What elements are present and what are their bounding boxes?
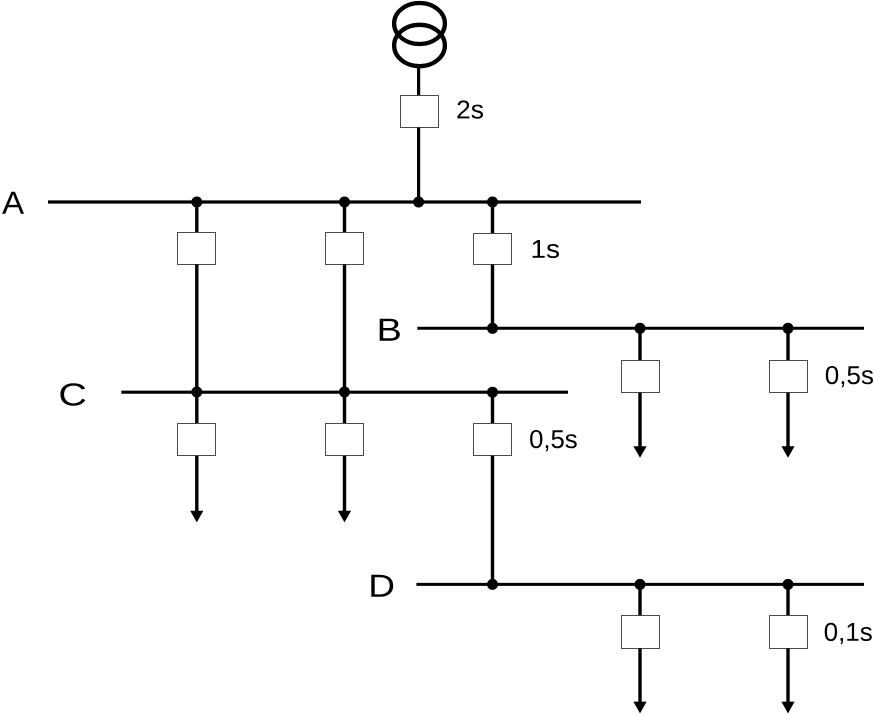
relay A2 box xyxy=(326,233,364,265)
bus B xyxy=(417,327,864,330)
wire relay C3 to bus D xyxy=(491,456,494,585)
relay C1 box xyxy=(178,424,216,456)
load arrow D1 xyxy=(633,648,646,713)
wire bus D to relay D1 xyxy=(638,584,641,616)
load arrow C1 xyxy=(190,456,203,523)
label 1s xyxy=(533,240,559,258)
label 0,5s bus C xyxy=(530,430,577,451)
relay D1 box xyxy=(622,616,660,649)
wire relay A2 to bus C xyxy=(343,264,346,392)
load arrow B1 xyxy=(633,393,646,458)
relay D2 box xyxy=(770,616,808,649)
junction feeder 1s on bus A xyxy=(487,197,498,208)
wire bus C to relay C2 xyxy=(343,392,346,424)
junction feeder 2 on bus C xyxy=(339,387,350,398)
wire bus D to relay D2 xyxy=(786,584,789,616)
junction feeder 1 on bus C xyxy=(191,387,202,398)
wire relay A1 to bus C xyxy=(195,264,198,392)
wire bus A to relay A2 xyxy=(343,202,346,233)
wire relay 1s to bus B xyxy=(491,265,494,329)
relay C2 box xyxy=(326,424,364,456)
bus D xyxy=(416,583,864,586)
relay B2 box xyxy=(770,361,808,393)
label bus D xyxy=(371,575,393,597)
junction tie on bus C xyxy=(487,387,498,398)
junction feeder 1 on bus A xyxy=(191,197,202,208)
transformer T1 xyxy=(394,3,445,66)
junction transformer feeder on bus A xyxy=(413,197,424,208)
junction feeder 1 on bus D xyxy=(635,579,646,590)
wire transformer to relay 2s xyxy=(417,64,420,97)
junction feeder 2 on bus D xyxy=(783,579,794,590)
relay 1s box xyxy=(474,234,512,265)
label bus B xyxy=(380,319,400,341)
wire bus C to relay C1 xyxy=(195,392,198,424)
wire relay 2s to bus A xyxy=(417,128,420,204)
relay B1 box xyxy=(622,361,660,393)
wire bus B to relay B1 xyxy=(638,328,641,361)
wire bus A to relay 1s xyxy=(491,202,494,234)
relay C3 box xyxy=(474,424,512,456)
relay A1 box xyxy=(178,233,216,265)
junction feeder 2 on bus B xyxy=(783,323,794,334)
relay 2s box xyxy=(401,96,439,128)
label bus C xyxy=(60,383,85,406)
wire bus C to relay C3 xyxy=(491,392,494,424)
label 0,1s bus D xyxy=(825,623,872,644)
bus A xyxy=(48,200,641,203)
label bus A xyxy=(2,192,24,214)
junction feeder 2 on bus A xyxy=(339,197,350,208)
wire bus A to relay A1 xyxy=(195,202,198,233)
label 2s xyxy=(457,100,483,118)
label 0,5s bus B xyxy=(826,366,873,387)
load arrow C2 xyxy=(338,456,351,523)
junction feeder 1s on bus B xyxy=(487,323,498,334)
load arrow B2 xyxy=(781,393,794,458)
load arrow D2 xyxy=(781,648,794,713)
wire bus B to relay B2 xyxy=(786,328,789,361)
junction tie on bus D xyxy=(487,579,498,590)
bus C xyxy=(121,391,568,394)
junction feeder 1 on bus B xyxy=(635,323,646,334)
